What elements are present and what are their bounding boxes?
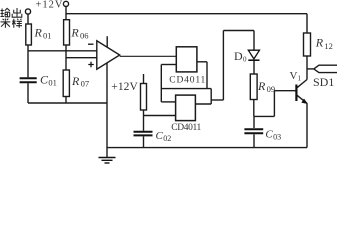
svg-text:12: 12 (324, 41, 333, 51)
svg-text:V: V (290, 70, 298, 82)
svg-text:01: 01 (48, 78, 57, 88)
svg-text:+12V: +12V (36, 0, 63, 10)
svg-text:R: R (315, 36, 324, 50)
svg-text:1: 1 (298, 74, 302, 82)
svg-text:07: 07 (81, 78, 90, 88)
svg-text:03: 03 (273, 133, 281, 142)
svg-text:06: 06 (80, 31, 89, 41)
svg-text:CD4011: CD4011 (171, 123, 201, 133)
svg-text:0: 0 (243, 55, 247, 63)
svg-text:R: R (34, 26, 43, 40)
svg-text:02: 02 (163, 134, 171, 143)
svg-text:R: R (257, 79, 266, 93)
svg-text:R: R (71, 74, 80, 88)
svg-text:SD1: SD1 (313, 75, 334, 89)
svg-text:R: R (70, 26, 79, 40)
svg-text:+12V: +12V (111, 81, 138, 93)
svg-text:CD4011: CD4011 (169, 75, 205, 85)
svg-text:D: D (234, 49, 243, 63)
svg-text:01: 01 (43, 31, 52, 41)
svg-text:09: 09 (267, 84, 276, 94)
